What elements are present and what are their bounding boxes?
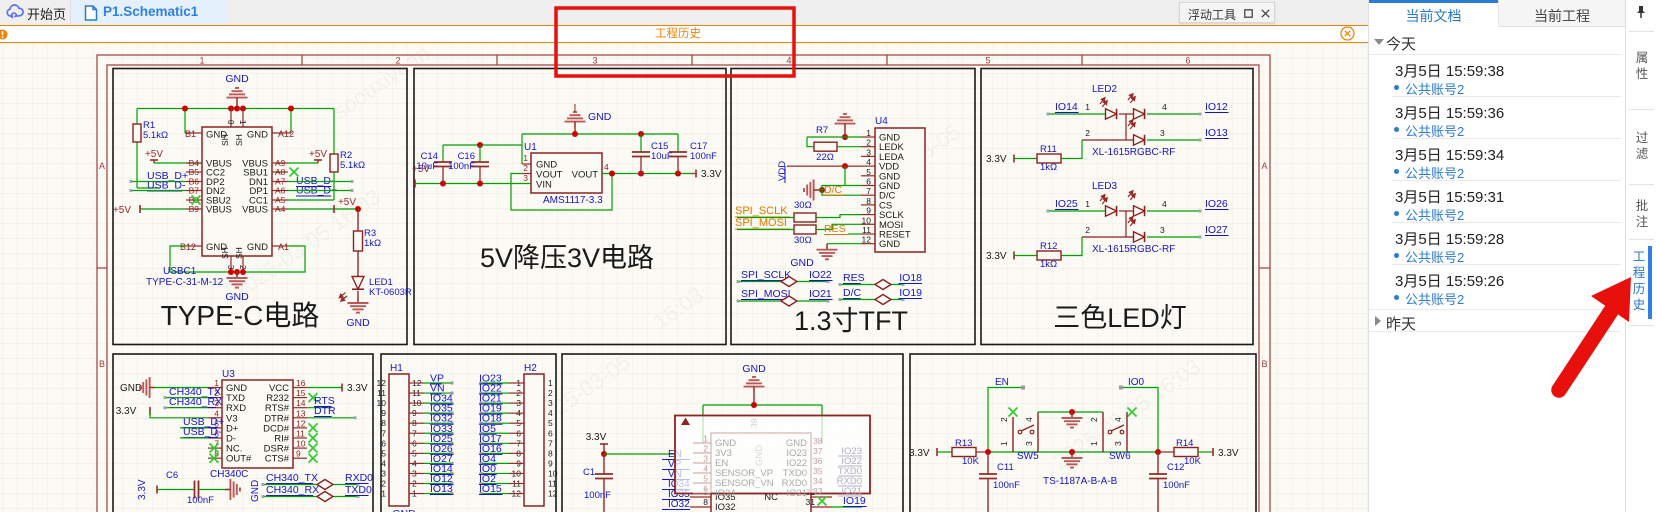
svg-text:6: 6 [866,177,871,187]
block border headers [381,354,556,512]
svg-text:3.3V: 3.3V [586,432,607,443]
svg-text:3.3V: 3.3V [1218,448,1239,459]
resistor R1 [136,142,138,188]
svg-text:37: 37 [813,446,823,456]
svg-text:GND: GND [225,73,249,85]
svg-text:CH340C: CH340C [210,469,248,480]
svg-text:1kΩ: 1kΩ [1040,259,1057,270]
svg-text:9: 9 [381,408,386,418]
svg-text:8: 8 [866,196,871,206]
svg-text:5: 5 [985,56,990,66]
svg-text:4: 4 [548,408,553,418]
wires LED2 row1 [1048,113,1105,115]
svg-text:CH340_TX: CH340_TX [266,472,318,484]
svg-text:VBUS: VBUS [206,205,232,216]
svg-text:5: 5 [866,167,871,177]
svg-text:VBUS: VBUS [242,205,268,216]
svg-text:11: 11 [377,388,386,398]
svg-text:TYPE-C-31-M-12: TYPE-C-31-M-12 [146,277,224,288]
junction dots on GND rail [182,106,188,112]
capacitor C15 [632,152,650,157]
svg-text:3.3V: 3.3V [909,448,930,459]
svg-text:10uF: 10uF [416,161,438,172]
sheet outer frame [97,55,1270,512]
svg-text:R7: R7 [816,125,828,136]
wire A9 VBUS to +5V right [288,162,318,164]
svg-text:3: 3 [703,454,708,464]
annotation red rectangle [556,8,794,76]
svg-text:5: 5 [381,448,386,458]
svg-text:VOUT: VOUT [572,170,599,181]
selection ghost overlay ESP32 module [675,416,870,494]
svg-text:三色LED灯: 三色LED灯 [1053,303,1187,333]
svg-text:1kΩ: 1kΩ [1040,162,1057,173]
svg-text:4: 4 [703,464,708,474]
svg-text:GND: GND [346,317,370,329]
svg-text:33: 33 [813,486,823,496]
svg-text:RES: RES [843,272,865,284]
svg-text:100nF: 100nF [690,151,717,162]
svg-text:36: 36 [813,456,823,466]
svg-text:IO32: IO32 [715,502,736,512]
svg-text:B: B [99,359,105,369]
svg-text:SH: SH [220,247,230,259]
wire A1 GND loop [243,246,305,272]
svg-text:IO15: IO15 [479,483,502,495]
svg-text:SW6: SW6 [1109,451,1131,462]
svg-text:5: 5 [703,474,708,484]
wire bottom rail buttons [988,451,1158,453]
svg-text:TXD0: TXD0 [345,484,372,496]
svg-text:C12: C12 [1167,462,1184,473]
svg-text:IO34: IO34 [715,488,736,499]
svg-text:CTS#: CTS# [265,454,290,465]
wires LED2 row2 [1125,114,1127,140]
junction dots bottom shield [228,269,234,275]
svg-text:7: 7 [548,438,553,448]
svg-text:7: 7 [381,428,386,438]
svg-text:5V降压3V电路: 5V降压3V电路 [480,243,654,273]
svg-text:IO26: IO26 [1205,198,1228,210]
svg-text:2: 2 [999,417,1009,422]
svg-text:B7: B7 [189,186,200,196]
svg-text:3: 3 [548,398,553,408]
resistor R3 [357,209,359,231]
x-marks NC OUT# [210,444,219,453]
svg-text:2: 2 [1085,225,1090,235]
svg-text:USB_D-: USB_D- [183,426,222,438]
svg-text:D/C: D/C [824,184,843,196]
capacitor C1 [603,454,605,474]
wires LED3 row2 [1125,211,1127,237]
svg-text:15: 15 [296,388,306,398]
svg-text:GND: GND [247,130,268,141]
svg-text:1: 1 [381,489,386,499]
svg-text:34: 34 [813,476,823,486]
ground bottom TFT [827,243,861,245]
svg-text:IO22: IO22 [809,269,832,281]
svg-text:GND: GND [392,508,416,512]
wire GND rail ESP32 [703,404,822,406]
wire VDD to pin4 [787,165,861,167]
svg-text:XL-1615RGBC-RF: XL-1615RGBC-RF [1092,244,1175,255]
svg-text:30Ω: 30Ω [794,200,812,211]
svg-text:3.3V: 3.3V [701,169,722,180]
svg-text:+5V: +5V [113,205,131,216]
wire VOUT right rail [602,173,692,175]
wire to pin7 DC [822,190,861,195]
svg-text:8: 8 [548,448,553,458]
module U2 inner rect [711,433,811,512]
svg-text:U1: U1 [524,142,537,153]
wire VCC to 3.3V [307,387,342,389]
watermark texts [229,40,1206,474]
svg-text:1: 1 [548,378,553,388]
net label DTR [307,417,355,419]
wire GND rail to R7 [807,136,861,138]
svg-text:0: 0 [226,120,235,125]
svg-text:VIN: VIN [536,180,552,191]
svg-text:SH: SH [234,134,244,146]
svg-text:1: 1 [866,128,871,138]
svg-text:LED2: LED2 [1092,84,1117,95]
svg-text:3: 3 [523,173,528,183]
resistor R2 [330,154,338,172]
row ticks [97,267,107,269]
svg-text:5.1kΩ: 5.1kΩ [340,160,365,171]
svg-text:A: A [99,161,105,171]
svg-text:IO21: IO21 [841,486,862,497]
svg-text:1: 1 [199,56,204,66]
resistor R14 [1158,451,1174,453]
svg-text:12: 12 [296,418,306,428]
svg-text:RXD0: RXD0 [345,472,373,484]
sheet inner frame [107,65,1259,512]
ground GND top of buck [565,112,586,127]
svg-text:8: 8 [703,497,708,507]
svg-text:B9: B9 [189,204,200,214]
switch SW6 [1128,408,1137,417]
svg-text:10K: 10K [1184,456,1202,467]
svg-text:3.3V: 3.3V [116,406,137,417]
svg-text:1: 1 [999,441,1009,446]
svg-text:IO19: IO19 [899,287,922,299]
svg-text:SPI_SCLK: SPI_SCLK [735,205,788,217]
svg-text:IO13: IO13 [1205,127,1228,139]
svg-text:GND: GND [742,363,766,375]
svg-text:SW5: SW5 [1017,451,1039,462]
svg-text:U3: U3 [222,369,235,380]
wire R1 to VBUS row [137,187,160,189]
svg-text:3.3V: 3.3V [137,479,148,500]
svg-text:USBC1: USBC1 [163,266,197,277]
svg-text:3.3V: 3.3V [986,154,1007,165]
svg-text:A4: A4 [275,204,286,214]
svg-text:LED3: LED3 [1092,181,1117,192]
svg-text:13: 13 [296,408,306,418]
block border CH340 [113,354,373,512]
LED LED1 [352,277,364,290]
resistor 30ohm lower [794,225,816,234]
svg-text:4: 4 [1162,102,1167,112]
svg-text:SH: SH [220,134,230,146]
svg-text:12: 12 [377,378,387,388]
svg-text:GND: GND [879,239,900,250]
resistor R13 [937,451,952,453]
svg-text:U4: U4 [875,116,888,127]
svg-text:14: 14 [296,398,306,408]
svg-text:1: 1 [703,434,708,444]
svg-text:H1: H1 [390,363,403,374]
connector USBC1 body [202,127,272,256]
svg-text:D/C: D/C [843,287,862,299]
svg-text:10K: 10K [962,456,980,467]
svg-text:H2: H2 [524,363,537,374]
ground under LED1 [348,297,369,313]
block border ESP32 [562,354,903,512]
svg-text:C11: C11 [997,462,1014,473]
svg-text:4: 4 [1024,417,1034,422]
block border buttons [910,354,1256,512]
svg-text:A: A [1261,161,1267,171]
wire caps top rail left [443,144,522,146]
svg-text:IO12: IO12 [1205,101,1228,113]
svg-text:KT-0603R: KT-0603R [369,287,412,298]
svg-text:9: 9 [548,458,553,468]
svg-text:C1: C1 [583,467,595,478]
svg-text:16: 16 [296,378,306,388]
svg-text:2: 2 [703,444,708,454]
svg-text:100nF: 100nF [448,161,475,172]
svg-text:IO21: IO21 [809,288,832,300]
svg-text:3: 3 [592,56,597,66]
svg-text:100nF: 100nF [993,480,1020,491]
svg-text:30Ω: 30Ω [794,235,812,246]
svg-text:TS-1187A-B-A-B: TS-1187A-B-A-B [1043,476,1118,487]
annotation red arrow [1559,277,1631,390]
block border TFT [731,69,975,345]
svg-text:2: 2 [866,138,871,148]
svg-text:CH340_RX: CH340_RX [266,484,319,496]
ground under USB-C [227,272,248,288]
svg-text:4: 4 [786,56,791,66]
svg-text:6: 6 [703,484,708,494]
svg-text:GND: GND [790,257,814,269]
wire +5V to VIN [415,183,531,185]
svg-text:IO32: IO32 [668,499,690,510]
svg-text:10: 10 [296,439,306,449]
svg-text:IO21: IO21 [786,488,807,499]
wire top GND rail TYPE-C [137,108,334,110]
svg-text:2: 2 [395,56,400,66]
svg-text:6: 6 [548,428,553,438]
svg-text:9: 9 [866,206,871,216]
svg-text:C6: C6 [166,470,178,481]
sideways ground TFT mid [804,180,819,201]
svg-text:B5: B5 [189,167,200,177]
svg-text:6: 6 [381,438,386,448]
svg-text:10: 10 [862,215,872,225]
svg-text:10: 10 [548,468,558,478]
svg-text:1: 1 [1085,102,1090,112]
svg-text:DTR: DTR [314,405,336,417]
svg-text:SPI_MOSI: SPI_MOSI [735,217,787,229]
svg-text:IO13: IO13 [430,483,453,495]
svg-text:4: 4 [1113,417,1123,422]
right vertical tab strip [1625,0,1656,512]
svg-text:GND: GND [588,111,612,123]
capacitor C14 [434,162,452,167]
svg-text:OUT#: OUT# [226,454,252,465]
svg-text:1: 1 [1089,441,1099,446]
svg-text:9: 9 [296,449,301,459]
svg-text:2: 2 [548,388,553,398]
svg-text:3: 3 [1160,225,1165,235]
svg-text:GND: GND [120,383,142,394]
wire 3.3V to module [604,453,676,455]
svg-text:+5V: +5V [145,149,163,160]
capacitor C16 [471,162,489,167]
svg-text:RES: RES [824,223,846,235]
block border 5V buck [414,69,726,345]
svg-text:TYPE-C电路: TYPE-C电路 [161,300,320,331]
pin1 wire to gnd rail [522,163,531,165]
switch SW5 [1009,408,1018,417]
x-mark unused pin B8 [192,196,201,205]
svg-text:2: 2 [381,479,386,489]
USB-C left pins [186,162,202,164]
USB-C bottom shield pins [230,256,232,272]
svg-text:6: 6 [1185,56,1190,66]
svg-text:11: 11 [862,225,871,235]
svg-text:38: 38 [813,436,823,446]
capacitor C12 [1157,452,1159,474]
svg-text:100nF: 100nF [584,490,611,501]
top tab bar [0,0,1368,25]
svg-text:GND: GND [247,242,268,253]
block border TYPE-C [113,69,407,345]
svg-text:+5V: +5V [338,197,356,208]
svg-text:IO27: IO27 [1205,224,1228,236]
svg-text:7: 7 [866,186,871,196]
svg-text:12: 12 [548,489,558,499]
USB-C right pins [272,162,288,164]
svg-text:1.3寸TFT: 1.3寸TFT [794,306,908,336]
svg-text:3: 3 [1024,441,1034,446]
svg-text:A1: A1 [278,242,289,252]
svg-text:GND: GND [225,291,249,303]
svg-text:3: 3 [381,468,386,478]
floating tool window [1179,2,1275,23]
svg-text:10: 10 [377,398,387,408]
wire top rail between switches [1038,411,1103,413]
svg-text:3.3V: 3.3V [986,251,1007,262]
wire B12 GND loop [170,246,231,272]
svg-text:A8: A8 [275,167,286,177]
pin stubs top of USB-C shield [230,109,232,128]
svg-text:B1: B1 [185,129,196,139]
svg-text:A6: A6 [275,186,286,196]
svg-text:USB_D-: USB_D- [147,180,186,192]
svg-text:GND: GND [250,480,261,502]
ground right of C6 [225,479,240,500]
svg-text:B: B [1261,359,1267,369]
x-marks right side U3 [309,393,318,402]
wire B9 VBUS to +5V rail bottom-left [140,208,186,210]
module U2 left pin rows visible [690,496,711,498]
svg-text:CH340_RX: CH340_RX [169,396,222,408]
ground bottom middle buttons [1062,452,1083,468]
svg-text:IO14: IO14 [1055,101,1078,113]
svg-text:4: 4 [1162,199,1167,209]
wire VOUT loop under U1 [522,173,531,175]
svg-text:SPI_MOSI: SPI_MOSI [741,288,791,300]
svg-text:XL-1615RGBC-RF: XL-1615RGBC-RF [1092,147,1175,158]
svg-text:5.1kΩ: 5.1kΩ [143,130,168,141]
svg-text:B12: B12 [180,242,196,252]
svg-text:1: 1 [238,120,247,125]
svg-text:VDD: VDD [777,161,788,181]
column ticks [301,55,303,65]
svg-text:3: 3 [1160,128,1165,138]
svg-text:12: 12 [862,235,872,245]
svg-text:4: 4 [866,157,871,167]
svg-text:4: 4 [604,162,609,172]
svg-text:22Ω: 22Ω [816,152,834,163]
svg-text:IO25: IO25 [1055,198,1078,210]
svg-text:8: 8 [381,418,386,428]
power 3.3V buck right [692,173,695,175]
wire A4 VBUS to +5V far right rail [288,208,358,210]
svg-text:5: 5 [548,418,553,428]
svg-text:100nF: 100nF [1163,480,1190,491]
svg-text:2: 2 [1089,417,1099,422]
svg-text:100nF: 100nF [187,495,214,506]
wire top GND rail buck [522,133,678,135]
ground top middle buttons [1062,412,1083,428]
svg-text:AMS1117-3.3: AMS1117-3.3 [543,195,603,206]
svg-text:1: 1 [523,153,528,163]
svg-text:A12: A12 [278,129,294,139]
svg-text:3.3V: 3.3V [347,383,368,394]
svg-text:4: 4 [381,458,386,468]
net label RTS [307,407,330,409]
message bar [0,27,1368,43]
svg-text:IO18: IO18 [899,272,922,284]
svg-text:+5V: +5V [309,149,327,160]
ground top TFT [835,114,856,129]
svg-text:1kΩ: 1kΩ [364,238,381,249]
svg-text:3: 3 [866,147,871,157]
capacitor C17 [669,152,687,157]
x-mark unused pin A8 [290,168,299,177]
svg-text:EN: EN [995,377,1009,388]
right history panel [1368,0,1625,512]
svg-text:3: 3 [1113,441,1123,446]
block border RGB LED [981,69,1253,345]
svg-text:11: 11 [548,479,557,489]
svg-text:1: 1 [1085,199,1090,209]
wires LED3 row1 [1048,210,1105,212]
svg-text:11: 11 [296,429,305,439]
svg-text:IO0: IO0 [1128,377,1145,388]
svg-text:2: 2 [1085,128,1090,138]
svg-text:35: 35 [813,466,823,476]
capacitor C11 [987,452,989,474]
